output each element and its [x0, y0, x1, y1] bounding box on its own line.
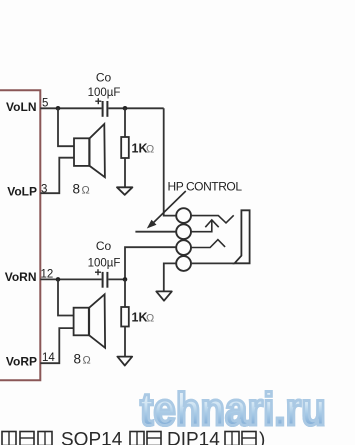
- caption CJK char zhuang: [242, 432, 256, 445]
- jack contact circle 1 (L tip): [176, 208, 191, 223]
- wire resistor bottom lead (bottom): [124, 327, 126, 357]
- plus sign of bottom cap: [95, 269, 101, 275]
- wire resistor top lead: [124, 108, 126, 137]
- plus sign of top cap: [95, 98, 101, 104]
- svg-text:DIP14: DIP14: [167, 430, 220, 445]
- wire cap to HP branch: [108, 107, 163, 109]
- node dot VoRN/resistor junction: [123, 277, 128, 282]
- caption CJK char 3: [38, 432, 52, 445]
- caption CJK char 2: [20, 432, 34, 445]
- speaker R cone: [89, 294, 105, 348]
- HP control arrow: [151, 191, 186, 225]
- caption CJK char 1: [2, 432, 16, 445]
- wire cap to resistor junction (bottom): [108, 278, 125, 280]
- free wire circle2 left: [135, 231, 176, 233]
- caption CJK char feng: [225, 432, 239, 445]
- switch contact wire circle1 right: [191, 215, 234, 223]
- wire speaker R bottom terminal to VoRP: [40, 328, 73, 363]
- capacitor Co (top): [103, 101, 108, 117]
- node dot VoLN/resistor junction: [123, 106, 128, 111]
- caption CJK char 5: [147, 432, 161, 445]
- jack contact circle 3 (R tip): [176, 240, 191, 255]
- wire resistor top lead (bottom): [124, 279, 126, 307]
- node dot VoRN/speaker junction: [56, 277, 61, 282]
- svg-text:): ): [259, 430, 265, 445]
- wire speaker L bottom terminal to VoLP: [40, 158, 74, 194]
- ground (jack sleeve): [156, 291, 172, 300]
- watermark tehnari.ru: [140, 387, 355, 435]
- headphone plug outline: [235, 210, 250, 263]
- wire circle4 left to ground: [164, 263, 177, 291]
- IC boundary box: [0, 90, 40, 380]
- wire resistor bottom lead: [124, 158, 126, 187]
- speaker L cone: [90, 124, 105, 177]
- wire HP branch down to jack tip L: [164, 108, 177, 215]
- resistor 1K (bottom): [121, 307, 129, 327]
- wire circle3 left to VoRN junction: [125, 247, 176, 279]
- speaker L body: [74, 138, 89, 166]
- jack contact circle 2: [176, 224, 191, 239]
- wire VoRN pin12 to cap: [40, 278, 101, 280]
- ground (top resistor): [117, 187, 132, 195]
- ground (bottom resistor): [117, 357, 132, 366]
- switch arrow from circle2: [191, 220, 212, 232]
- jack contact circle 4 (sleeve): [176, 256, 191, 271]
- resistor 1K (top): [121, 137, 129, 158]
- wire circle4 right to plug sleeve: [191, 262, 235, 264]
- wire speaker R top terminal: [58, 279, 74, 315]
- wire VoLN pin5 to cap: [40, 107, 101, 109]
- wire speaker L top terminal: [58, 108, 74, 146]
- speaker R body: [74, 308, 89, 336]
- capacitor Co (bottom): [103, 272, 108, 288]
- switch contact wire circle3 right: [191, 240, 225, 248]
- svg-text:SOP14: SOP14: [61, 430, 123, 445]
- caption CJK char 4: [130, 432, 144, 445]
- node dot VoLN/speaker junction: [56, 106, 61, 111]
